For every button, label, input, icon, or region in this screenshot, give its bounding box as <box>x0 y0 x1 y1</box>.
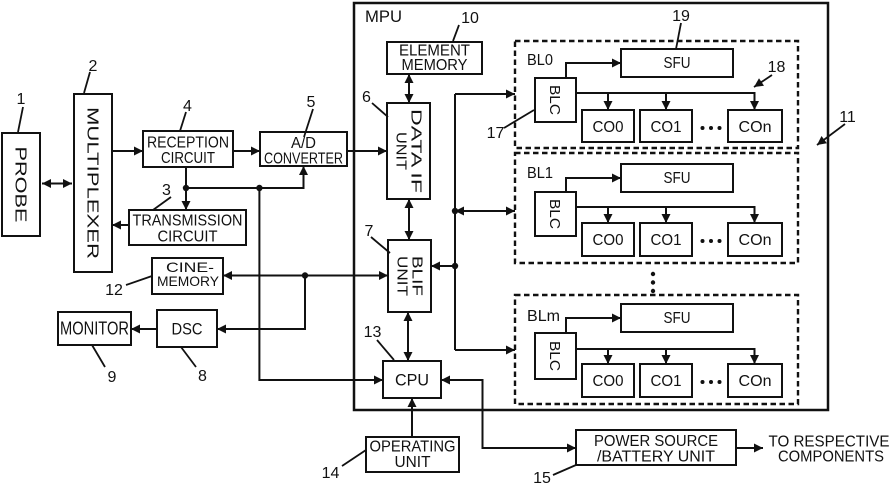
label 5 <box>304 94 316 137</box>
block COn (BL1) <box>728 223 782 256</box>
block CPU <box>383 361 441 398</box>
block BLC (BL0) <box>535 78 576 122</box>
block ELEMENT MEMORY <box>387 42 482 74</box>
label 19 <box>672 8 690 49</box>
block CINE-MEMORY <box>152 258 223 294</box>
wire CINE-MEMORY to BLIF UNIT (double arrow) <box>223 275 388 277</box>
junction on CINE-BLIF wire <box>302 272 308 278</box>
wire RECEPTION CIRCUIT down to junction <box>185 167 187 188</box>
label 17 <box>487 110 534 142</box>
svg-text:1: 1 <box>17 91 26 108</box>
wire bus to BL0 <box>455 93 515 95</box>
label 3 <box>153 182 171 210</box>
block COn (BL0) <box>728 110 782 142</box>
label 18 (arrow) <box>754 59 786 87</box>
block CO1 (BLm) <box>640 364 692 397</box>
junction bus at BLIF <box>452 263 458 269</box>
svg-text:4: 4 <box>183 98 192 115</box>
block MULTIPLEXER <box>74 94 112 272</box>
block BL0 (dashed) <box>515 41 798 148</box>
label 6 <box>362 89 388 117</box>
block CO1 (BL1) <box>640 223 692 256</box>
svg-text:UNIT: UNIT <box>393 132 410 170</box>
svg-text:CO0: CO0 <box>593 373 624 390</box>
label 10 <box>453 10 479 41</box>
svg-text:11: 11 <box>839 109 856 126</box>
svg-text:SFU: SFU <box>664 170 691 187</box>
svg-text:/BATTERY UNIT: /BATTERY UNIT <box>597 449 715 466</box>
svg-text:9: 9 <box>108 369 117 386</box>
wire drop to CO1 (BL0) <box>665 93 667 110</box>
block BLm (dashed) <box>515 295 798 404</box>
svg-text:CIRCUIT: CIRCUIT <box>158 229 218 246</box>
wire BLC bus to CO boxes (BL0) <box>576 93 755 110</box>
svg-text:COMPONENTS: COMPONENTS <box>778 449 884 466</box>
label 14 <box>322 450 366 482</box>
block MONITOR <box>58 312 131 345</box>
wire DSC to MONITOR <box>131 328 157 330</box>
svg-text:TRANSMISSION: TRANSMISSION <box>133 213 243 230</box>
block TRANSMISSION CIRCUIT <box>129 210 246 246</box>
svg-text:12: 12 <box>105 282 123 299</box>
block SFU (BL0) <box>621 49 733 77</box>
wire drop to CO0 (BLm) <box>607 349 609 364</box>
wire junction to TRANSMISSION CIRCUIT <box>185 188 187 210</box>
block CO0 (BL0) <box>582 110 634 142</box>
block DATA IF UNIT <box>387 103 430 199</box>
wire BLC to SFU (BL1) <box>566 178 621 192</box>
wire PROBE to MULTIPLEXER (double arrow) <box>42 183 72 185</box>
svg-text:COn: COn <box>739 119 772 136</box>
svg-text:BLC: BLC <box>546 341 563 371</box>
svg-text:19: 19 <box>672 8 690 25</box>
wire MULTIPLEXER to RECEPTION CIRCUIT <box>112 150 143 152</box>
svg-text:MONITOR: MONITOR <box>60 319 129 339</box>
svg-text:5: 5 <box>307 94 316 111</box>
block CO1 (BL0) <box>640 110 692 142</box>
svg-text:CO0: CO0 <box>593 232 624 249</box>
wire drop to CO1 (BLm) <box>665 349 667 364</box>
svg-text:3: 3 <box>162 182 171 199</box>
svg-text:CIRCUIT: CIRCUIT <box>161 150 215 167</box>
svg-text:CO1: CO1 <box>651 373 682 390</box>
wire BLC to SFU (BL0) <box>566 63 621 78</box>
wire junction down to CPU <box>259 188 383 380</box>
label 1 <box>17 91 26 132</box>
label 11 (arrow) <box>817 109 856 145</box>
junction bus at BL1 <box>452 208 458 214</box>
MPU container box <box>354 3 828 410</box>
block SFU (BL1) <box>621 164 733 192</box>
svg-text:DSC: DSC <box>172 320 203 339</box>
block POWER SOURCE /BATTERY UNIT <box>576 430 736 466</box>
svg-text:MEMORY: MEMORY <box>157 273 220 289</box>
wire MPU bus vertical <box>454 94 456 350</box>
wire BLC bus to CO boxes (BLm) <box>576 349 755 364</box>
wire RECEPTION CIRCUIT to A/D CONVERTER <box>233 150 260 152</box>
svg-text:UNIT: UNIT <box>394 256 411 296</box>
ellipsis dots (BLm) <box>701 380 722 384</box>
svg-text:POWER SOURCE: POWER SOURCE <box>594 433 718 450</box>
label 12 <box>105 276 152 299</box>
junction below A/D CONVERTER <box>256 185 262 191</box>
wire drop to CO0 (BL1) <box>607 207 609 223</box>
wire BLIF UNIT to CPU (double arrow) <box>407 312 409 361</box>
svg-text:SFU: SFU <box>664 310 691 327</box>
svg-text:CPU: CPU <box>395 371 429 390</box>
block RECEPTION CIRCUIT <box>143 131 233 167</box>
wire CPU to POWER SOURCE (double arrow) <box>441 380 576 448</box>
label 15 <box>533 465 576 483</box>
wire drop to CO0 (BL0) <box>607 93 609 110</box>
wire bus to BLIF UNIT <box>431 265 455 267</box>
block BL1 (dashed) <box>515 153 798 263</box>
svg-text:A/D: A/D <box>291 135 316 152</box>
svg-text:6: 6 <box>362 89 371 106</box>
svg-text:CO0: CO0 <box>593 119 624 136</box>
svg-text:14: 14 <box>322 465 340 482</box>
wire DATA IF UNIT to BLIF UNIT (double arrow) <box>408 199 410 240</box>
svg-text:PROBE: PROBE <box>12 147 29 223</box>
svg-text:MULTIPLEXER: MULTIPLEXER <box>84 107 101 259</box>
ellipsis dots (BL1) <box>701 239 722 243</box>
svg-text:BLC: BLC <box>546 199 563 229</box>
wire bus to BL1 (double arrow) <box>455 210 515 212</box>
wire junction right and up into A/D CONVERTER <box>186 166 304 188</box>
text TO RESPECTIVE COMPONENTS <box>769 434 890 466</box>
wire junction down to DSC <box>217 276 305 330</box>
svg-text:RECEPTION: RECEPTION <box>147 135 229 152</box>
svg-text:BL1: BL1 <box>527 165 553 182</box>
block OPERATING UNIT <box>366 437 459 472</box>
svg-text:MEMORY: MEMORY <box>402 57 468 74</box>
block DSC <box>157 310 217 347</box>
svg-text:COn: COn <box>739 373 772 390</box>
svg-text:BL0: BL0 <box>527 52 553 69</box>
label 2 <box>84 58 98 93</box>
label 8 <box>181 347 207 385</box>
svg-text:8: 8 <box>198 368 207 385</box>
block CO0 (BL1) <box>582 223 634 256</box>
block CO0 (BLm) <box>582 364 634 397</box>
svg-text:UNIT: UNIT <box>395 454 431 471</box>
wire BLC bus to CO boxes (BL1) <box>576 207 755 223</box>
svg-text:13: 13 <box>364 324 382 341</box>
svg-text:18: 18 <box>768 59 786 76</box>
block PROBE <box>2 133 40 236</box>
svg-text:BLC: BLC <box>546 85 563 115</box>
block BLIF UNIT <box>388 240 431 312</box>
svg-text:15: 15 <box>533 470 551 483</box>
block BLC (BLm) <box>535 333 576 379</box>
vertical ellipsis between BL1 and BLm <box>651 272 655 293</box>
svg-text:OPERATING: OPERATING <box>370 439 456 456</box>
label 7 <box>365 223 390 253</box>
label 4 <box>180 98 192 131</box>
wire TRANSMISSION CIRCUIT to MULTIPLEXER <box>112 224 129 226</box>
wire drop to CO1 (BL1) <box>665 207 667 223</box>
block COn (BLm) <box>728 364 782 397</box>
wire bus to BLm <box>455 349 515 351</box>
svg-text:CO1: CO1 <box>651 119 682 136</box>
ellipsis dots (BL0) <box>701 126 722 130</box>
wire A/D CONVERTER to DATA IF UNIT <box>347 150 387 152</box>
label 13 <box>364 324 394 360</box>
label 9 <box>92 345 117 386</box>
block BLC (BL1) <box>535 192 576 236</box>
svg-text:SFU: SFU <box>664 55 691 72</box>
wire ELEMENT MEMORY to DATA IF UNIT (double arrow) <box>408 74 410 103</box>
svg-text:MPU: MPU <box>365 7 402 26</box>
wire POWER SOURCE to respective components <box>736 447 763 449</box>
wire OPERATING UNIT to CPU <box>411 398 413 437</box>
wire BLC to SFU (BLm) <box>566 318 621 333</box>
svg-text:COn: COn <box>739 232 772 249</box>
svg-text:CONVERTER: CONVERTER <box>264 151 343 168</box>
block SFU (BLm) <box>621 304 733 332</box>
block A/D CONVERTER <box>260 132 347 168</box>
svg-text:10: 10 <box>461 10 479 27</box>
svg-text:CO1: CO1 <box>651 232 682 249</box>
svg-text:BLm: BLm <box>527 308 560 325</box>
svg-text:17: 17 <box>487 125 505 142</box>
junction below RECEPTION CIRCUIT <box>183 185 189 191</box>
